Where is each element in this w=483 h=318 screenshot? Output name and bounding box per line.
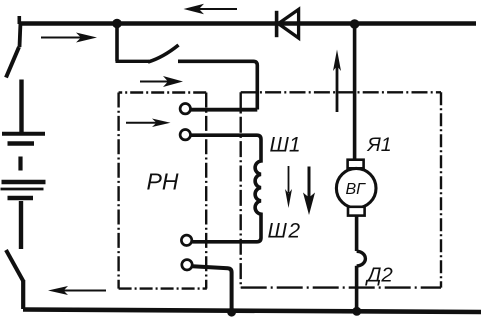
lead below machine (355, 216, 359, 251)
junction dot top-right (350, 19, 360, 29)
generator VG machine circle (336, 168, 376, 208)
switch S1 blade (open) (6, 47, 19, 78)
switch S2 blade (open) (6, 250, 23, 281)
terminal circle 4 (182, 260, 192, 270)
relay fixed contact wire (178, 61, 257, 109)
brush top (348, 160, 364, 169)
terminal circle 3 (181, 235, 191, 245)
armature lead Ya1 (353, 25, 357, 160)
wire top bus (19, 21, 476, 26)
wire terminal4 to bottom bus (193, 266, 232, 312)
battery GB plate long 1 (2, 132, 45, 136)
arrow down thick (308, 167, 311, 199)
D2 pigtail loop (357, 251, 366, 266)
regulator PH boundary box (dash-dot) (119, 93, 207, 289)
generator boundary box (dash-dot) (241, 92, 441, 287)
diode VD triangle (278, 9, 298, 38)
battery GB plate long 2 (2, 180, 46, 184)
wire battery top (19, 80, 23, 133)
brush bottom (348, 207, 365, 216)
corner stub top left (17, 16, 21, 24)
wire bottom bus (23, 310, 481, 313)
switch S1 upper lead (20, 22, 21, 47)
terminal circle 2 (180, 130, 190, 140)
arrow middle (right-pointing) (140, 81, 168, 83)
junction dot bottom-right (352, 307, 361, 316)
relay contact blade (148, 45, 179, 62)
wire junction to relay contact (115, 25, 119, 61)
battery GB plate short 2 (8, 196, 34, 201)
lead to bottom bus (355, 266, 359, 312)
svg-text:РН: РН (147, 169, 179, 195)
wire terminal2 to winding, field winding Sh1-Sh2 coil, wire to terminal3 (191, 135, 261, 242)
arrow upper-left (right-pointing) (41, 37, 82, 39)
switch S2 lower stub (21, 280, 25, 309)
battery GB plate long 2b (1, 188, 44, 191)
wire terminal1 to contact (191, 108, 257, 112)
wire battery bottom (19, 201, 23, 249)
terminal circle 1 (180, 104, 190, 114)
arrow lower-middle (right-pointing) (126, 122, 157, 124)
battery GB plate short 1 (8, 141, 35, 146)
svg-text:ВГ: ВГ (346, 181, 367, 198)
junction dot top-left (112, 19, 122, 29)
svg-text:Ш1: Ш1 (270, 134, 301, 157)
diode VD cathode bar (275, 11, 279, 37)
battery inter-cell link (18, 157, 22, 171)
arrow up (armature current) (336, 64, 339, 112)
svg-text:Я1: Я1 (367, 134, 392, 156)
svg-text:Д2: Д2 (365, 264, 393, 287)
junction dot bottom-left (227, 308, 236, 317)
arrow bottom-left (left-pointing) (63, 290, 106, 292)
svg-text:Ш2: Ш2 (268, 220, 302, 243)
arrow top (left-pointing) (199, 8, 237, 10)
arrow down thin (field current) (288, 166, 290, 193)
